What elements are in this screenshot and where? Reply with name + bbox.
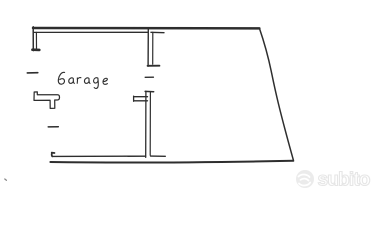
dash left of Garage label (27, 72, 38, 74)
wall top inner right segment (151, 31, 164, 33)
wall upper-middle bottom foot (148, 65, 160, 67)
wall lower-middle vertical right stroke (149, 93, 151, 156)
speck bottom left (5, 179, 7, 180)
wall bottom upper line left hook (52, 153, 55, 157)
wall bottom upper line left segment (52, 155, 145, 157)
door dash below upper-middle wall (145, 76, 153, 78)
handwritten label Garage letter g (94, 78, 99, 89)
door jamb symbol left (outlined tee) (34, 92, 60, 109)
wall left stub outer stroke (32, 27, 34, 51)
watermark subito logo circle (296, 170, 314, 188)
wall upper-middle vertical inner stroke (152, 32, 154, 64)
handwritten label Garage letter r (77, 78, 81, 84)
wall lower-middle left stub bottom stroke (134, 100, 148, 102)
wall top outer (33, 27, 259, 30)
svg-text:subito: subito (318, 170, 370, 191)
handwritten label Garage letter a2 (84, 78, 90, 84)
wall upper-middle vertical outer stroke (147, 28, 149, 66)
handwritten label Garage letter G (58, 72, 64, 84)
wall left stub bottom foot (32, 48, 39, 51)
wall lower-middle vertical left stroke (145, 91, 147, 157)
wall lower-middle left stub top stroke (134, 96, 148, 98)
handwritten label Garage letter a1 (69, 78, 75, 84)
wall lower-middle left stub end cap (133, 96, 135, 101)
wall right diagonal (259, 28, 293, 160)
wall lower-middle top cap (145, 90, 154, 92)
wall top inner left segment (34, 31, 148, 33)
wall left stub inner stroke (35, 32, 37, 48)
dash below door jamb symbol (48, 126, 58, 128)
wall bottom upper line right segment (151, 155, 166, 157)
wall bottom lower line (50, 161, 293, 163)
handwritten label Garage letter e (103, 78, 107, 84)
